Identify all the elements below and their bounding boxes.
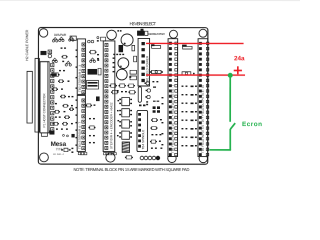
TB1 pin pads (141, 42, 144, 45)
switch blade green (230, 123, 235, 129)
diode D16 (151, 44, 161, 48)
pads under Q4 (146, 101, 148, 105)
svg-text:STEP/DIR 4 + ENCODER + #5422: STEP/DIR 4 + ENCODER + #5422 (109, 102, 113, 149)
mounting hole MH7 (168, 154, 176, 162)
wire red lower 24V line (146, 74, 245, 76)
resistor R41 near TB5 (150, 70, 163, 73)
TB5 pin pads (169, 42, 172, 45)
TB3 pin pads (82, 99, 85, 102)
TB3 left side dashes (75, 99, 77, 145)
smd dot left bay (62, 61, 64, 62)
wire green vertical lower (229, 129, 231, 150)
transistor Q2 (144, 82, 149, 85)
smds above buzzer (117, 30, 121, 31)
mounting hole MH1 (39, 29, 47, 37)
terminal block TB5 FIELD I/O left (168, 39, 178, 157)
capacitor C2 (116, 69, 127, 80)
connector P1 HOST CONNECTOR (40, 62, 49, 133)
dash row under U5 (113, 54, 124, 55)
terminal block TB1 FIELD POWER (138, 38, 150, 86)
black square bottom bay (71, 134, 74, 138)
svg-text:TB3 STEP/DIR 4 - 7: TB3 STEP/DIR 4 - 7 (78, 122, 82, 149)
svg-text:H3 VBN SELECT: H3 VBN SELECT (130, 21, 157, 26)
pad J1 (48, 50, 52, 54)
connector H2 cable power edge (35, 58, 39, 132)
small parts right of TB3 (113, 56, 137, 72)
mounting hole MH8 (199, 154, 207, 162)
resistor row under caps (110, 84, 136, 94)
wire green vertical upper (229, 75, 231, 122)
transistor Q3 (146, 89, 151, 92)
connector P3 expansion ENCODER (103, 41, 115, 152)
diode D4 (69, 37, 74, 42)
svg-text:Ecron: Ecron (242, 121, 262, 128)
diode D2 (52, 37, 57, 42)
smd rows between TB5 TB6 (181, 86, 196, 147)
dots right of P3 (117, 90, 119, 136)
transformer T1 hatched (122, 142, 129, 153)
mounting hole MH6 (106, 153, 115, 162)
TB2 left side dashes (76, 49, 78, 88)
smd column left of TB5 (161, 97, 163, 145)
parts left of P3 (97, 54, 101, 75)
dark component U5 (119, 45, 124, 52)
resistor network RN1 vertical (138, 87, 141, 103)
svg-text:TB4 SPINDLE: TB4 SPINDLE (141, 130, 145, 150)
terminal block TB2 STEP/DIR 0-3 (77, 39, 85, 95)
TB4 bottom pad circles (140, 156, 144, 160)
resistor R30 (51, 73, 60, 77)
terminal block TB3 STEP/DIR 4-7 (77, 95, 85, 151)
mounting hole MH5 (40, 153, 49, 162)
mounting hole MH3 (169, 30, 177, 38)
svg-text:NOTE: TERMINAL BLOCK PIN 1S AR: NOTE: TERMINAL BLOCK PIN 1S ARE MARKED W… (73, 167, 189, 172)
diode D3 (59, 37, 64, 42)
plus symbol (234, 66, 242, 74)
svg-text:P1 HOST CONNECTOR: P1 HOST CONNECTOR (42, 93, 46, 128)
diode D5 (52, 58, 57, 63)
resistor R40 with label (182, 72, 195, 75)
svg-text:TB1 FIELD POWER: TB1 FIELD POWER (145, 55, 149, 83)
node green junction dot (228, 73, 233, 78)
terminal block TB4 SPINDLE (137, 110, 148, 151)
svg-text:D16 RELAY PWR: D16 RELAY PWR (148, 32, 165, 36)
TB2 pin pads (82, 43, 85, 46)
svg-text:7I76: 7I76 (56, 147, 63, 151)
svg-text:24a: 24a (234, 55, 245, 62)
smd pair right of logo (71, 148, 73, 153)
wire red upper 24V line (146, 42, 243, 44)
svg-text:TB2 STEP/DIR 0 - 3: TB2 STEP/DIR 0 - 3 (78, 65, 82, 92)
P3 bottom pad row (104, 153, 106, 155)
jumper W1 (182, 45, 192, 49)
part left of bottom-middle hole (125, 156, 133, 159)
terminal block TB6 FIELD INPUTS right (198, 39, 208, 157)
quad pads (153, 106, 160, 112)
P3 pin pads two columns (105, 43, 108, 46)
jumper H3 filled (137, 29, 148, 36)
tiny circles under H1 (63, 134, 69, 136)
pad marker dark on P3 edge (96, 96, 100, 101)
small part right of U5 (132, 45, 135, 51)
capacitor C7 polarized (40, 51, 46, 55)
parts right of TB4 (150, 118, 162, 148)
buzzer/speaker big circle (121, 34, 133, 46)
smds above TB4 (139, 104, 146, 106)
transistor Q4 (145, 95, 150, 98)
parts column between TB2 and TB3 (85, 37, 99, 144)
svg-text:H2 CABLE POWER: H2 CABLE POWER (25, 29, 29, 61)
svg-text:4E AB1.4: 4E AB1.4 (53, 153, 64, 156)
optocoupler chain U10-U13 (122, 97, 130, 105)
filled pad end of TB4 circle row (156, 156, 160, 160)
regulator U2 (129, 70, 136, 80)
capacitor C1 (118, 58, 129, 69)
TB4 pin pads (138, 113, 141, 116)
mounting hole MH4 (199, 29, 207, 37)
svg-text:D1 5V PWR: D1 5V PWR (54, 33, 67, 37)
mounting hole MH2 (107, 30, 117, 40)
pads right column upper (152, 81, 159, 102)
small parts scatter left bay (52, 47, 74, 129)
TB3 bottom pad row (78, 152, 87, 154)
board outline PCB 7I76 (38, 27, 208, 164)
diode D6 (65, 61, 71, 66)
TB6 pin pads (199, 42, 202, 45)
P1 pin pads column (51, 63, 54, 66)
part cluster below H1 (61, 148, 71, 151)
tiny part above P3 top (101, 37, 106, 41)
wire green horizontal to TB6 (209, 149, 231, 151)
